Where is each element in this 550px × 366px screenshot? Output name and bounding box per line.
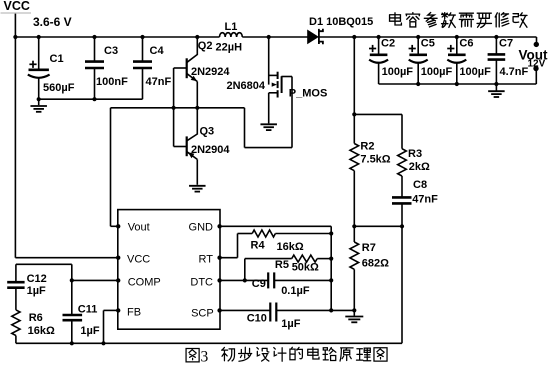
node divider bottom right [400,224,404,228]
svg-text:SCP: SCP [191,308,214,320]
wire R3 to C8 [401,176,403,197]
svg-text:3: 3 [201,349,209,366]
node R4 right [329,231,333,235]
wire Q3 emitter down [196,159,198,184]
wire comp jog horizontal [16,263,72,265]
wire base tie vertical [173,68,175,147]
capacitor C7 plates [488,53,506,56]
pin Vout [116,224,120,228]
svg-text:R4: R4 [251,239,266,251]
wire left rail [14,37,16,258]
transistor Q2 emitter arrow [191,76,197,82]
wire SCP row right [276,309,354,311]
svg-text:100µF: 100µF [459,66,491,78]
node C9 right [329,278,333,282]
wire gate link horizontal [245,147,293,149]
transistor Q2 base bar [186,58,188,78]
node R7 bottom [352,308,356,312]
node C4 top [140,35,144,39]
node C3 top [92,35,96,39]
svg-text:47nF: 47nF [412,194,438,206]
node divider bottom left [352,224,356,228]
capacitor C3 wire top [94,37,96,61]
svg-text:2N2904: 2N2904 [191,144,230,156]
svg-text:C3: C3 [104,45,118,57]
svg-text:VCC: VCC [4,0,30,13]
resistor R2 [350,144,359,171]
svg-text:COMP: COMP [128,277,161,289]
wire SCP row left [220,309,271,311]
wire top rail middle segment [242,36,307,38]
wire DTC row right [274,279,331,281]
wire R6 bottom [15,336,17,344]
svg-text:682Ω: 682Ω [362,258,389,270]
mosfet body arrow [272,83,277,87]
svg-text:C11: C11 [78,303,98,315]
wire Vout minus drop [535,70,537,84]
wire driver line [111,107,245,109]
resistor R6 [12,310,20,336]
transistor Q2 emitter [187,74,197,82]
mosfet source down [268,93,270,124]
node C1 bottom [37,97,41,101]
wire FB row [104,309,118,311]
diode D1 schottky cathode bar [319,29,323,45]
wire R4 lead right [275,233,331,235]
capacitor C3 plates [85,60,104,63]
capacitor C6 plates [448,53,466,56]
node C7 top [494,35,498,39]
ground below mosfet [260,123,277,125]
wire R4 lead left [238,233,253,235]
wire R5 riser [244,259,246,281]
node SCP ladder junction [329,308,333,312]
capacitor C4 plates [133,60,152,63]
wire DTC row left [220,279,269,281]
node C6 bottom [455,82,459,86]
svg-text:0.1µF: 0.1µF [281,285,310,297]
wire divider bottom link [354,225,402,227]
wire Vout terminal drop [536,37,538,43]
wire R7 top [353,226,355,242]
resistor R3 [398,149,407,176]
pin SCP [217,308,221,312]
capacitor C5 wire bottom [417,63,419,85]
capacitor C11 plates [63,314,83,317]
svg-text:C8: C8 [413,179,427,191]
wire feedback right vertical [401,226,403,343]
svg-text:C6: C6 [459,38,473,50]
wire VCC row to IC [15,257,117,259]
wire driver right drop [244,108,246,148]
mosfet source stub [269,92,278,94]
node R5 to DTC [243,278,247,282]
terminal Vout plus [534,42,539,47]
pin FB [116,308,120,312]
capacitor C12 plates [7,281,24,284]
inductor L1 coil [220,33,243,37]
transistor Q2 collector [187,37,197,62]
svg-text:50kΩ: 50kΩ [292,262,319,274]
wire divider jog [354,113,402,115]
terminal Vout minus [533,66,538,71]
svg-text:Q2: Q2 [198,40,213,52]
wire output ground rail [379,83,537,85]
wire R7 bottom [353,269,355,310]
ground below R7 [353,310,355,316]
node C5 bottom [416,82,420,86]
capacitor C10 plates [269,303,271,322]
wire RT row [220,257,238,259]
capacitor C8 plates [392,196,412,199]
svg-text:100nF: 100nF [96,76,128,88]
capacitor C1 wire bottom [38,78,40,100]
wire R5 lead left [245,258,292,260]
svg-text:C10: C10 [247,313,267,325]
transistor Q3 emitter arrow [188,152,195,158]
svg-text:C2: C2 [381,38,395,50]
svg-text:FB: FB [127,307,141,319]
wire R2 bottom [353,171,355,227]
node base tie [172,106,176,110]
pin RT [217,256,221,260]
svg-text:L1: L1 [225,21,238,33]
mosfet drain wire [268,37,270,85]
svg-text:C1: C1 [50,53,64,65]
svg-text:4.7nF: 4.7nF [500,66,529,78]
wire R2 top [353,37,355,144]
node FB riser junction [101,341,105,345]
wire R3 top [401,114,403,148]
mosfet drain stub [269,74,278,76]
note text 电容参数需要修改 [390,13,402,25]
node divider tee [352,112,356,116]
wire driver left drop [110,108,112,227]
svg-text:16kΩ: 16kΩ [28,325,55,337]
capacitor C7 wire top [495,37,497,54]
svg-text:2kΩ: 2kΩ [409,161,430,173]
capacitor C5 plus sign [409,48,416,50]
wire R4 riser [237,234,239,258]
svg-text:22µH: 22µH [216,41,243,53]
ground below C1 [38,99,40,105]
capacitor C2 plus sign [369,48,376,50]
svg-text:D1 10BQ015: D1 10BQ015 [309,16,373,28]
wire gate link vertical [291,77,293,148]
svg-text:GND: GND [189,222,214,234]
diode D1 triangle [307,30,319,45]
capacitor C7 wire bottom [495,60,497,84]
wire input cap ground bus [39,98,143,100]
capacitor C4 wire top [142,37,144,61]
node C2 top [377,35,381,39]
svg-text:2N2924: 2N2924 [191,66,230,78]
node C7 bottom [494,82,498,86]
svg-text:100µF: 100µF [421,66,453,78]
wire C8 bottom [401,203,403,226]
svg-text:16kΩ: 16kΩ [277,241,304,253]
svg-text:P_MOS: P_MOS [289,88,328,100]
wire C11 top lead [71,280,73,314]
node switch/L1/D1 [267,35,271,39]
svg-text:1µF: 1µF [80,325,99,337]
transistor Q3 emitter [187,152,197,160]
pin VCC [116,256,120,260]
node C5 top [416,35,420,39]
ground below Q3 [189,185,206,187]
capacitor C2 wire bottom [378,63,380,85]
svg-text:R6: R6 [29,312,43,324]
svg-text:Vout: Vout [128,222,150,234]
capacitor C5 wire top [417,37,419,54]
svg-text:RT: RT [199,254,214,266]
node R5 right [329,257,333,261]
wire R5 lead right [317,258,331,260]
svg-text:47nF: 47nF [146,76,172,88]
wire FB riser [103,310,105,343]
node C3 bottom [92,97,96,101]
resistor R5 [292,255,318,262]
svg-text:R7: R7 [362,242,376,254]
resistor R7 [350,242,359,269]
svg-text:7.5kΩ: 7.5kΩ [360,153,390,165]
pin GND [217,224,221,228]
svg-text:1µF: 1µF [281,318,300,330]
node COMP junction [70,278,74,282]
svg-text:C7: C7 [499,38,513,50]
svg-text:C9: C9 [252,278,266,290]
svg-text:R3: R3 [408,148,422,160]
wire VCC stem [14,14,16,37]
transistor Q2 base wire [174,67,187,69]
svg-text:100µF: 100µF [382,66,414,78]
wire C12 to R6 [15,288,17,310]
svg-text:560µF: 560µF [43,82,75,94]
wire top rail right segment [319,36,537,38]
svg-text:2N6804: 2N6804 [227,80,266,92]
node VCC stem junction [13,35,17,39]
node C1 top [37,35,41,39]
svg-text:1µF: 1µF [27,285,46,297]
capacitor C6 wire top [456,37,458,54]
wire GND row [220,225,332,227]
wire feedback bottom [16,342,402,344]
svg-text:VCC: VCC [127,254,150,266]
wire right ladder vertical [330,226,332,310]
node C11 bottom [70,341,74,345]
capacitor C3 wire bottom [94,68,96,99]
svg-text:R5: R5 [275,259,289,271]
capacitor C5 plates [409,53,427,56]
svg-text:Q3: Q3 [200,126,215,138]
capacitor C1 plus sign [29,63,36,65]
wire Q2 emitter down [196,82,198,108]
node C6 top [455,35,459,39]
svg-text:C5: C5 [421,38,435,50]
caption 图3 初步设计的电路原理图 [186,349,199,362]
wire Vout pin stub [111,225,118,227]
capacitor C6 plus sign [447,48,454,50]
svg-text:DTC: DTC [190,277,213,289]
pin COMP [116,278,120,282]
svg-text:3.6-6 V: 3.6-6 V [33,15,72,29]
capacitor C9 plates [267,272,269,288]
mosfet channel segments [277,72,279,79]
capacitor C2 wire top [378,37,380,54]
wire COMP row [72,279,118,281]
transistor Q3 collector [187,108,197,141]
node Q2 collector [195,35,199,39]
capacitor C4 wire bottom [142,68,144,99]
wire top VCC rail left segment [15,36,219,38]
svg-text:C4: C4 [150,45,165,57]
node Q2/Q3 junction [195,106,199,110]
power port VCC underline [1,12,32,14]
pin DTC [217,278,221,282]
capacitor C1 wire top [38,37,40,69]
resistor R4 [252,230,275,237]
svg-text:R2: R2 [360,140,374,152]
svg-text:C12: C12 [27,273,47,285]
wire comp jog vertical [71,264,73,280]
capacitor C1 plates [29,69,49,72]
wire C12 top lead [15,264,17,281]
transistor Q3 base wire [174,146,187,148]
capacitor C2 plates [370,53,388,56]
wire gate stub [281,76,292,78]
transistor Q3 base bar [186,136,188,156]
op-amp/controller U1 box [118,210,220,330]
mosfet gate bar [281,76,283,93]
wire C11 bottom lead [71,320,73,343]
ground below C7 [495,84,497,91]
capacitor C6 wire bottom [456,63,458,85]
node R2 top [352,35,356,39]
